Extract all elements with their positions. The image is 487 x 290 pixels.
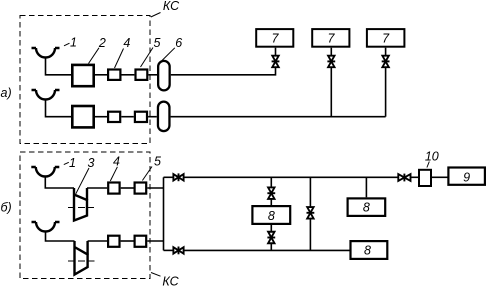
consumer 7 no.3 [367, 29, 405, 47]
svg-text:5: 5 [154, 36, 161, 50]
vessel 6 (scheme a line 2) [158, 102, 170, 131]
wire: 4 to 5 (b line 1) [121, 187, 134, 189]
svg-text:КС: КС [162, 274, 179, 288]
collector riser [163, 177, 165, 250]
wire: compressor out to 4 (b line 2) [88, 240, 107, 242]
wire: 2 to 4 (a line 2) [95, 116, 107, 118]
apparatus 2 (scheme a line 2) [72, 106, 93, 127]
wire: 6 to valve riser (a line 1) [171, 67, 276, 75]
wire: bottom distribution line [183, 249, 350, 251]
output valve (bottom line) [173, 247, 183, 255]
wire: box 7 no.3 to valve [385, 48, 387, 56]
leader to label 10 [427, 162, 429, 168]
consumer 8 (branch 1) [252, 206, 290, 224]
wire: 2 to 4 (a line 1) [95, 74, 107, 76]
wire: intake stem to pipe (b line 1) [45, 177, 74, 189]
wire: valve 1 to box 7 no.1 [275, 48, 277, 56]
wire: 5 to 6 (a line 1) [148, 74, 157, 76]
svg-text:1: 1 [69, 156, 76, 170]
svg-text:10: 10 [425, 150, 439, 164]
wire: 5 to 6 (a line 2) [148, 116, 157, 118]
enclosure KC (scheme b) dashed boundary [20, 152, 150, 279]
svg-text:6: 6 [175, 36, 182, 50]
apparatus 5 (scheme b line 1) [135, 183, 147, 194]
wire: line 2 manifold [171, 116, 386, 118]
wire: valve 2 down to line 2 [330, 67, 332, 117]
wire: intake stem to pipe (b line 2) [46, 232, 75, 242]
svg-text:б): б) [1, 200, 12, 214]
wire: valve to unit 10 [410, 176, 419, 178]
svg-text:8: 8 [268, 209, 275, 223]
svg-text:7: 7 [382, 32, 390, 46]
wire: valve 3 down to line 2 end [385, 67, 387, 117]
wire: branch 1 upper stem [270, 177, 272, 187]
apparatus 4 (scheme b line 2) [108, 236, 119, 247]
apparatus 5 (scheme b line 2) [135, 236, 147, 247]
leader to label 4 (a) [115, 49, 124, 69]
main output valve (before 10) [398, 174, 410, 182]
leader to label 6 [162, 48, 175, 61]
svg-text:3: 3 [88, 156, 95, 170]
apparatus 5 (scheme a line 1) [136, 70, 148, 80]
leader to label 3 [76, 168, 89, 194]
apparatus 4 (scheme a line 1) [108, 70, 120, 80]
valve under consumer 7 no.3 [382, 56, 390, 68]
leader to label 4 (b) [110, 167, 117, 181]
consumer 9 [448, 168, 485, 185]
wire: unit 10 to consumer 9 [432, 176, 448, 178]
wire: riser to output valve (bottom) [164, 249, 174, 251]
svg-text:2: 2 [98, 36, 106, 50]
wire: intake stem to pipe (a line 1) [46, 58, 72, 75]
air intake 1 (scheme b, line 2) [32, 222, 60, 231]
svg-text:5: 5 [154, 155, 161, 169]
valve under consumer 7 no.2 [327, 56, 335, 68]
svg-text:4: 4 [123, 36, 130, 50]
leader to label 5 (b) [142, 167, 152, 181]
wire: 4 to 5 (a line 2) [121, 116, 134, 118]
svg-text:7: 7 [328, 32, 336, 46]
wire: 5 to riser (b line 1) [147, 187, 163, 189]
apparatus 4 (scheme a line 2) [108, 112, 120, 122]
air intake 1 (scheme a, line 1) [32, 48, 60, 57]
wire: bypass branch 2 upper [309, 177, 311, 206]
apparatus 4 (scheme b line 1) [108, 183, 119, 194]
output valve (top line) [173, 173, 183, 181]
wire: branch 1 lower stem [270, 244, 272, 251]
air intake 1 (scheme a, line 2) [32, 90, 60, 99]
wire: intake stem to pipe (a line 2) [46, 100, 72, 117]
consumer 7 no.1 [256, 29, 293, 47]
svg-text:1: 1 [70, 35, 77, 49]
wire: consumer 8 branch 1 to lower valve [270, 225, 272, 232]
valve under consumer 7 no.1 [272, 56, 280, 68]
apparatus 5 (scheme a line 2) [135, 112, 147, 122]
enclosure KC (scheme a) dashed boundary [20, 16, 150, 144]
wire: bypass branch 2 lower [309, 219, 311, 250]
wire: 4 to 5 (b line 2) [121, 240, 134, 242]
svg-text:КС: КС [163, 0, 180, 13]
wire: top distribution line [183, 176, 398, 178]
wire: compressor out to 4 (b line 1) [87, 187, 107, 189]
wire: valve to consumer 8 branch 1 [270, 199, 272, 205]
valve branch 2 (bypass) [307, 207, 315, 219]
leader to label 5 (a) [141, 48, 154, 68]
unit 10 [419, 170, 431, 186]
valve branch 1 upper [267, 187, 275, 199]
wire: 5 to riser (b line 2) [147, 240, 163, 242]
axis centerline (compressor 1) [68, 207, 94, 209]
svg-text:8: 8 [363, 201, 370, 215]
svg-text:7: 7 [272, 32, 280, 46]
wire: riser to output valve (top) [164, 176, 174, 178]
svg-text:9: 9 [463, 170, 470, 184]
wire: 4 to 5 (a line 1) [122, 74, 135, 76]
air intake 1 (scheme b, line 1) [31, 167, 59, 177]
leader dash for label 1 (a) [64, 43, 70, 46]
svg-text:4: 4 [113, 155, 120, 169]
compressor 3 (scheme b line 2) [75, 241, 88, 275]
leader to KC label (bottom) [151, 273, 161, 277]
apparatus 2 (scheme a line 1) [72, 65, 93, 86]
wire: branch 3 stem [365, 177, 367, 197]
consumer 7 no.2 [312, 29, 349, 47]
svg-text:8: 8 [364, 243, 371, 257]
vessel 6 (scheme a line 1) [158, 61, 170, 91]
svg-text:а): а) [1, 86, 12, 100]
wire: box 7 no.2 to valve [330, 48, 332, 56]
compressor 3 (scheme b line 1) [74, 188, 87, 221]
consumer 8 (bottom) [351, 241, 388, 259]
leader to label 2 [89, 48, 100, 64]
leader dash for label 1 (b) [64, 162, 69, 164]
axis centerline (compressor 2) [68, 260, 95, 262]
leader to KC label (top) [151, 13, 161, 18]
consumer 8 (middle) [348, 198, 386, 216]
valve branch 1 lower [267, 232, 275, 244]
